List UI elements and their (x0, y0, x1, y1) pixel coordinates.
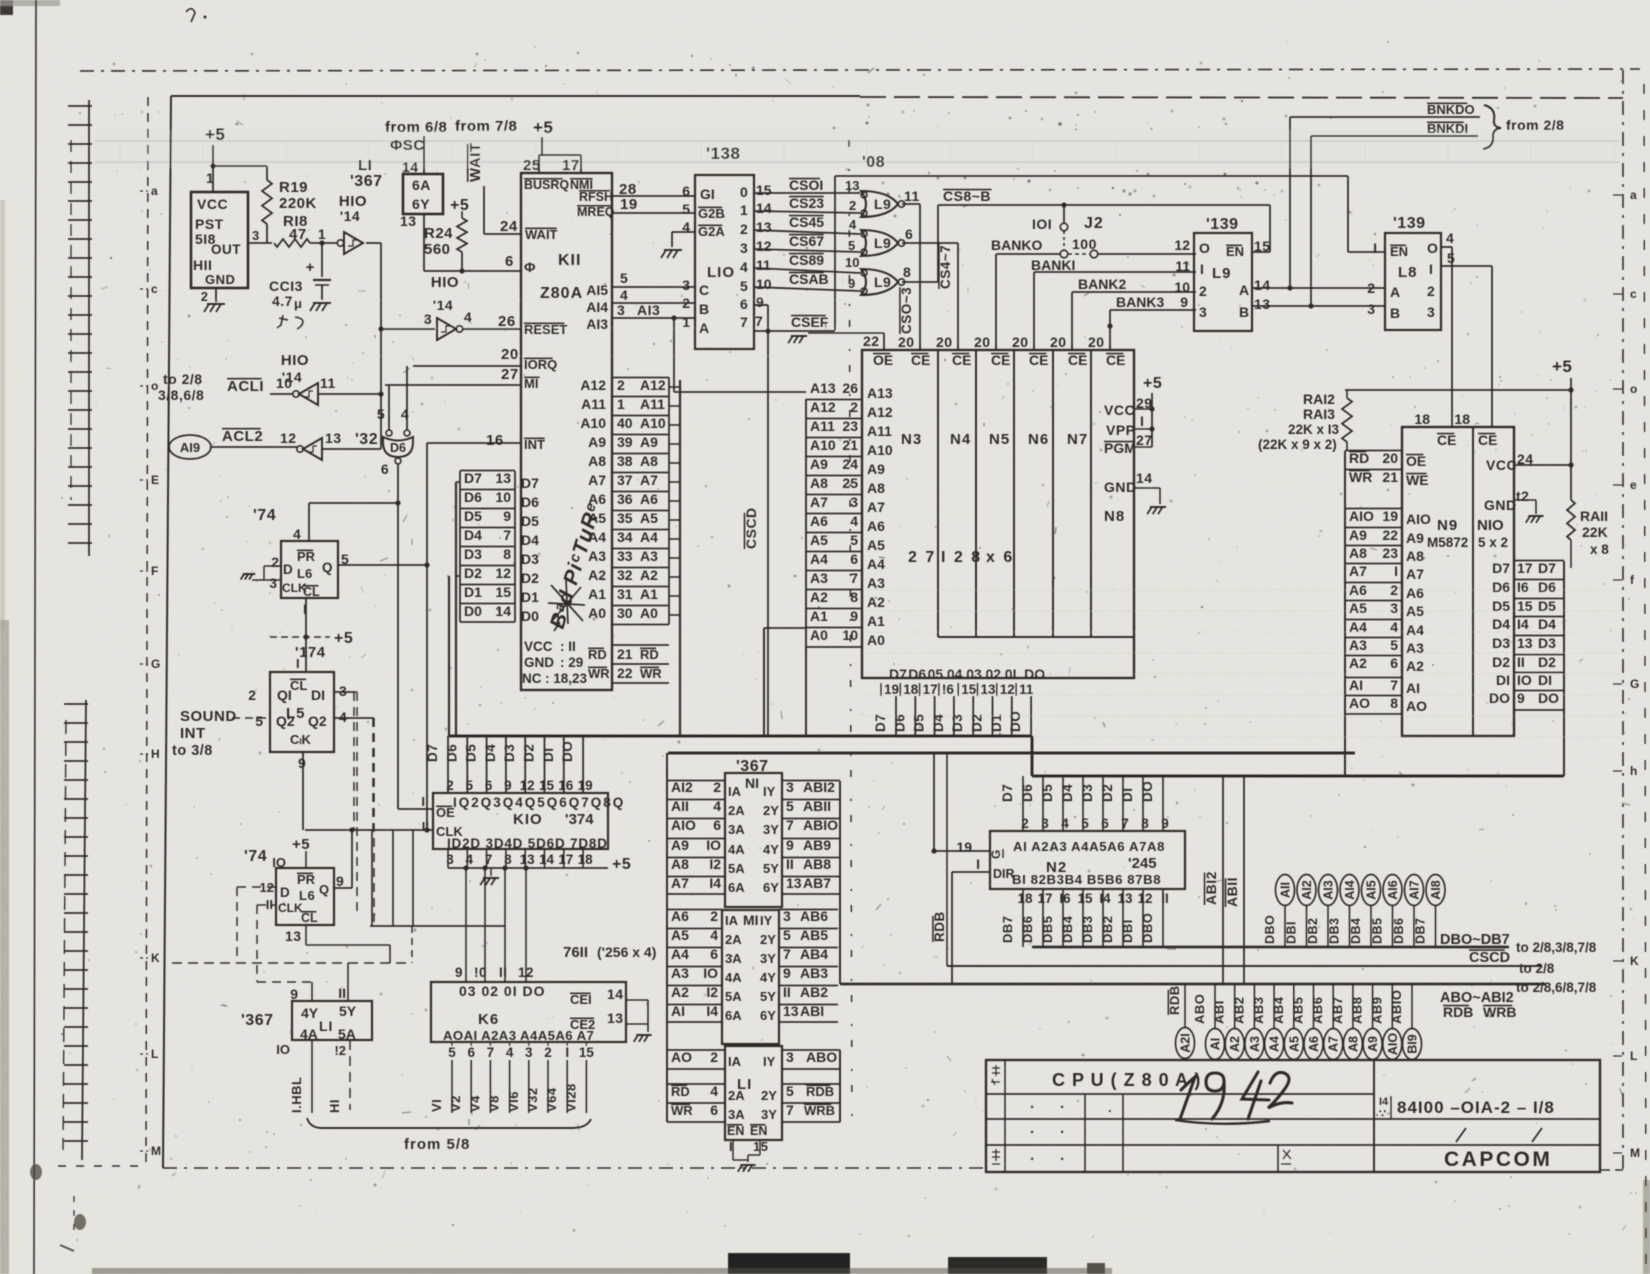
svg-text:AB6: AB6 (1310, 996, 1325, 1024)
svg-text:14: 14 (1254, 277, 1271, 293)
svg-text:PR: PR (297, 549, 316, 564)
svg-text:+5: +5 (1552, 357, 1572, 376)
svg-text:14: 14 (1136, 470, 1153, 486)
svg-text:to 2/8,3/8,7/8: to 2/8,3/8,7/8 (1516, 940, 1597, 955)
svg-text:D5: D5 (1538, 598, 1556, 614)
svg-text:GND: GND (1104, 479, 1137, 495)
CSCD bus line (947, 965, 1541, 967)
RAM divider (1472, 427, 1474, 736)
svg-text:A4: A4 (810, 551, 828, 567)
svg-text:NI: NI (745, 775, 759, 791)
vertical joining inverter outputs (380, 329, 382, 449)
svg-text:CE: CE (1106, 352, 1125, 368)
svg-text:38: 38 (617, 453, 633, 469)
right AB ladder vertical (839, 781, 841, 984)
wire inverter out down to H10b (366, 242, 381, 244)
L6 D pin2 step wire (264, 565, 281, 567)
svg-text:MI: MI (524, 376, 538, 391)
svg-text:9: 9 (848, 276, 855, 291)
svg-text:12: 12 (280, 430, 297, 446)
svg-text:3: 3 (1390, 600, 1398, 616)
svg-text:D7: D7 (1000, 784, 1015, 802)
AND gate L9a CS01+CS23 (861, 191, 898, 217)
svg-text:4: 4 (293, 526, 301, 542)
svg-text:A7: A7 (1327, 1036, 1341, 1052)
brace under V inputs (307, 1118, 591, 1128)
L6 lower Q wire up to K10 CLK (334, 887, 352, 889)
svg-text:9: 9 (455, 965, 463, 980)
handwritten katakana note (277, 315, 303, 329)
svg-text:OE: OE (873, 352, 893, 368)
inner dashed left line (146, 97, 148, 1168)
svg-text:t2: t2 (1516, 488, 1529, 504)
svg-text:220K: 220K (279, 195, 317, 212)
K10 output pins and +5 rail (447, 849, 449, 868)
svg-text:12: 12 (518, 965, 534, 980)
svg-text:19: 19 (620, 196, 638, 213)
svg-text:4: 4 (850, 513, 858, 529)
svg-text:N6: N6 (1028, 431, 1049, 448)
wire WAIT vertical to pin24 (483, 186, 485, 234)
svg-text:6A: 6A (728, 880, 745, 895)
svg-text:A7: A7 (1406, 566, 1424, 582)
svg-text:3: 3 (786, 779, 794, 795)
check slashes (1456, 1128, 1466, 1142)
svg-text:7: 7 (755, 313, 763, 329)
svg-text:'139: '139 (1206, 216, 1239, 233)
svg-text:14: 14 (756, 200, 772, 216)
svg-text:13: 13 (607, 1010, 624, 1026)
svg-text:5 x 2: 5 x 2 (1478, 535, 1508, 550)
svg-text:: II: : II (560, 639, 576, 654)
svg-text:L9: L9 (874, 235, 891, 251)
svg-text:A12: A12 (810, 399, 836, 415)
svg-text:VCC: VCC (197, 196, 228, 212)
Z80 address pin ladder A12-A0 (612, 377, 669, 379)
svg-text:WAIT: WAIT (467, 143, 484, 183)
svg-text:D0: D0 (464, 603, 482, 619)
RDB stub with oval A21 (1184, 985, 1186, 1028)
svg-text:D5: D5 (912, 714, 927, 732)
svg-text:I2: I2 (709, 856, 721, 872)
svg-text:5: 5 (620, 270, 628, 286)
svg-text:D7: D7 (464, 470, 482, 486)
svg-text:CS4~7: CS4~7 (938, 245, 953, 289)
svg-text:3: 3 (1199, 304, 1207, 320)
svg-text:4Y: 4Y (763, 842, 779, 857)
svg-text:DI: DI (1120, 788, 1135, 803)
svg-text:A9: A9 (810, 456, 828, 472)
svg-text:3: 3 (617, 302, 625, 318)
svg-text:from 7/8: from 7/8 (455, 118, 517, 135)
svg-text:8: 8 (850, 589, 858, 605)
svg-text:9: 9 (504, 778, 512, 793)
svg-text:to 2/8,6/8,7/8: to 2/8,6/8,7/8 (1516, 980, 1597, 995)
svg-text:10: 10 (842, 627, 858, 643)
svg-text:A11: A11 (810, 418, 835, 434)
svg-text:7: 7 (1390, 677, 1398, 693)
svg-text:A5: A5 (588, 510, 606, 526)
svg-text:O: O (1427, 240, 1438, 256)
svg-text:0: 0 (740, 184, 748, 200)
svg-text:2: 2 (849, 198, 856, 213)
svg-text:33: 33 (617, 548, 633, 564)
svg-text:11: 11 (904, 188, 920, 204)
svg-text:AI3: AI3 (1322, 880, 1336, 900)
svg-text:A13: A13 (867, 385, 893, 401)
svg-text:to 2/8: to 2/8 (163, 371, 203, 387)
node R18 to inverter (310, 242, 338, 244)
svg-text:AI2: AI2 (1300, 880, 1314, 900)
svg-text:20: 20 (1012, 334, 1029, 350)
svg-text:VI6: VI6 (506, 1091, 521, 1112)
svg-text:D6: D6 (1492, 579, 1510, 595)
stubs from rail down to K6 (465, 868, 467, 982)
svg-text:IO: IO (1517, 672, 1532, 688)
svg-text:II: II (266, 897, 273, 912)
resistor R18 47 (274, 239, 310, 247)
svg-text:D7: D7 (889, 666, 907, 682)
L5 D1 pin3 dashed vertical (334, 691, 357, 693)
svg-text:(22K x 9 x 2): (22K x 9 x 2) (1258, 437, 1337, 452)
svg-text:A12: A12 (640, 377, 666, 393)
svg-text:I4: I4 (1517, 616, 1529, 632)
svg-text:+5: +5 (612, 856, 631, 873)
svg-text:25: 25 (523, 157, 541, 174)
svg-text:G2A: G2A (698, 224, 725, 239)
svg-text:A6: A6 (671, 908, 689, 924)
buffer LI box (725, 1046, 782, 1140)
svg-text:9: 9 (290, 986, 298, 1002)
svg-text:L9: L9 (874, 274, 891, 290)
svg-text:1: 1 (682, 314, 690, 330)
svg-text:D6: D6 (444, 744, 459, 762)
svg-text:'32: '32 (355, 431, 378, 448)
svg-text:II: II (338, 985, 346, 1001)
svg-text:4Y: 4Y (760, 970, 776, 985)
svg-text:G: G (151, 657, 160, 671)
svg-text:AO: AO (1349, 695, 1370, 711)
svg-text:17: 17 (923, 682, 938, 697)
svg-text:D3: D3 (464, 546, 482, 562)
svg-text:AI: AI (1406, 680, 1420, 696)
svg-text:VCC: VCC (1104, 402, 1135, 418)
svg-text:WR: WR (1349, 469, 1372, 485)
svg-text:+5: +5 (1143, 375, 1162, 392)
svg-text:13: 13 (1517, 635, 1533, 651)
svg-text:10: 10 (756, 276, 772, 292)
svg-text:14: 14 (607, 986, 624, 1002)
ground H11 (207, 303, 225, 305)
svg-text:V4: V4 (467, 1095, 482, 1112)
svg-text:RESET: RESET (524, 322, 567, 337)
svg-text:V64: V64 (544, 1087, 559, 1112)
svg-text:6: 6 (905, 226, 913, 242)
svg-text:4A: 4A (725, 970, 742, 985)
svg-text:36: 36 (617, 491, 633, 507)
svg-text:A3: A3 (1248, 1036, 1262, 1052)
svg-text:'367: '367 (350, 173, 383, 190)
svg-text:3: 3 (1367, 301, 1375, 317)
L1 pin11 stub (347, 963, 349, 1001)
svg-text:5: 5 (466, 778, 474, 793)
svg-text:4: 4 (339, 709, 347, 725)
svg-text:I: I (565, 1045, 569, 1060)
svg-text:2: 2 (1021, 816, 1029, 831)
svg-text:A12: A12 (867, 404, 893, 420)
svg-text:1: 1 (206, 170, 214, 186)
svg-text:GI: GI (700, 186, 715, 202)
svg-text:4: 4 (713, 798, 721, 814)
svg-text:5: 5 (786, 1083, 794, 1099)
CS01 wire (754, 192, 860, 194)
svg-text:27: 27 (501, 366, 519, 383)
svg-text:560: 560 (424, 241, 451, 258)
svg-text:AO: AO (1406, 698, 1427, 714)
ground CC13 (313, 302, 331, 304)
svg-text:GND: GND (1484, 497, 1517, 513)
svg-text:'245: '245 (1128, 855, 1157, 872)
svg-text:V32: V32 (525, 1087, 540, 1112)
svg-text:!0: !0 (474, 965, 487, 980)
svg-text:3/8,6/8: 3/8,6/8 (158, 387, 204, 403)
svg-text:15: 15 (961, 682, 977, 697)
svg-text:μ: μ (294, 296, 302, 311)
svg-text:D3: D3 (1080, 784, 1095, 802)
svg-text:D2: D2 (522, 744, 537, 762)
svg-text:.: . (1030, 1147, 1035, 1164)
N2 top stubs to bus C (1022, 776, 1024, 831)
AB bus line (840, 983, 1545, 986)
svg-text:18: 18 (1017, 891, 1033, 906)
svg-text:MI: MI (743, 912, 759, 928)
svg-text:B: B (699, 301, 710, 317)
paper mottle overlay (0, 0, 1, 1)
svg-text:3: 3 (1427, 304, 1435, 320)
page edge shading left (0, 620, 9, 1274)
svg-text:11: 11 (1019, 682, 1034, 697)
svg-text:B: B (1390, 305, 1401, 321)
svg-text:WAIT: WAIT (525, 227, 558, 242)
svg-text:EN: EN (727, 1124, 744, 1138)
svg-text:4: 4 (401, 406, 409, 422)
svg-text:13: 13 (981, 682, 997, 697)
svg-text:DB2: DB2 (1306, 917, 1320, 944)
svg-text:DO: DO (1489, 690, 1510, 706)
svg-text:3A: 3A (728, 822, 745, 837)
svg-text:8: 8 (1390, 695, 1398, 711)
svg-text:ABI: ABI (1212, 1000, 1227, 1024)
svg-text:3: 3 (682, 277, 690, 293)
svg-text:RAI2: RAI2 (1303, 391, 1335, 407)
title block column lines (1004, 1060, 1006, 1172)
svg-text:03: 03 (966, 666, 982, 682)
svg-text:4: 4 (464, 309, 472, 325)
svg-text:DBI: DBI (1285, 921, 1299, 944)
svg-text:AII: AII (1279, 882, 1293, 898)
svg-text:ABI2: ABI2 (1203, 871, 1219, 905)
svg-text:D6: D6 (892, 714, 907, 732)
svg-text:D6: D6 (464, 489, 482, 505)
svg-text:A7: A7 (1349, 563, 1367, 579)
L1 pin9 wire from dash trunk (257, 981, 312, 983)
svg-text:: 29: : 29 (560, 655, 583, 670)
svg-text:AB4: AB4 (1271, 996, 1286, 1024)
svg-text:G: G (989, 850, 1003, 859)
capacitor CC13 4.7u (321, 243, 323, 277)
svg-text:AB3: AB3 (800, 965, 828, 981)
svg-text:.: . (1030, 1095, 1035, 1112)
svg-text:AB2: AB2 (1231, 996, 1246, 1024)
svg-text:HII: HII (193, 257, 212, 273)
ROM address ladder A13-A0 (805, 399, 807, 647)
BNKD1 riser (1310, 136, 1312, 306)
svg-text:RFSH: RFSH (579, 190, 613, 204)
svg-text:5: 5 (682, 201, 690, 217)
svg-text:13: 13 (325, 430, 342, 446)
svg-text:13: 13 (1254, 296, 1271, 312)
svg-text:26: 26 (498, 313, 516, 330)
outer dash-dot border bottom (163, 1167, 988, 1169)
svg-text:BANK3: BANK3 (1116, 294, 1164, 310)
svg-text:4: 4 (740, 259, 748, 275)
CE pin 20 stubs (919, 345, 921, 350)
svg-text:+5: +5 (533, 118, 553, 137)
svg-text:BUSRQ: BUSRQ (524, 178, 569, 192)
svg-text:CL: CL (301, 911, 318, 925)
svg-text:CE: CE (911, 352, 930, 368)
svg-text:I6: I6 (1517, 579, 1529, 595)
svg-text:20: 20 (501, 346, 519, 363)
svg-text:II: II (786, 856, 794, 872)
svg-text:4: 4 (710, 927, 718, 943)
svg-text:DB7: DB7 (1414, 917, 1428, 944)
svg-text:22K x I3: 22K x I3 (1288, 422, 1340, 437)
svg-text:A9: A9 (588, 434, 606, 450)
svg-text:2: 2 (710, 1049, 718, 1065)
svg-text:from 2/8: from 2/8 (1506, 117, 1564, 133)
svg-text:A0: A0 (867, 632, 885, 648)
svg-text:AB6: AB6 (800, 908, 828, 924)
svg-text:DB5: DB5 (1040, 915, 1055, 943)
RAM control/address ladder (1344, 451, 1346, 776)
pin3 OUT wire (248, 242, 272, 244)
svg-text:G: G (1630, 677, 1639, 691)
svg-text:AB2: AB2 (800, 984, 828, 1000)
svg-text:DO: DO (1008, 711, 1023, 732)
svg-text:RDB: RDB (1443, 1004, 1473, 1020)
svg-text:KII: KII (558, 252, 581, 269)
svg-text:47: 47 (289, 226, 307, 243)
svg-text:12: 12 (1174, 237, 1190, 253)
svg-text:GND: GND (205, 272, 235, 287)
svg-text:1: 1 (617, 396, 625, 412)
svg-text:A1: A1 (588, 586, 606, 602)
svg-text:CSEF: CSEF (791, 314, 829, 330)
main border top (171, 95, 860, 97)
svg-text:CE: CE (1068, 352, 1087, 368)
inverter H10d ACL2 (303, 438, 322, 460)
svg-text:: 18,23: : 18,23 (545, 671, 588, 686)
svg-text:2: 2 (544, 1045, 552, 1060)
svg-text:EN: EN (1390, 244, 1408, 259)
svg-text:D2: D2 (970, 714, 985, 732)
svg-text:20: 20 (936, 334, 953, 350)
svg-text:!2: !2 (334, 1043, 346, 1058)
svg-text:HI: HI (327, 1099, 342, 1113)
svg-text:QI: QI (277, 687, 292, 703)
svg-text:A12: A12 (580, 377, 606, 393)
svg-text:N8: N8 (1104, 508, 1125, 525)
svg-text:4.7: 4.7 (272, 293, 293, 309)
svg-text:6Y: 6Y (760, 1008, 776, 1023)
svg-text:DI: DI (311, 687, 325, 703)
svg-text:IO: IO (276, 1042, 290, 1057)
svg-text:D2: D2 (1538, 654, 1556, 670)
bus B to C jog (1031, 736, 1034, 776)
svg-text:13: 13 (756, 219, 772, 235)
svg-text:DO: DO (560, 741, 575, 762)
svg-text:D5: D5 (1040, 784, 1055, 802)
svg-text:20: 20 (974, 334, 991, 350)
svg-text:18: 18 (903, 682, 919, 697)
svg-text:A7: A7 (867, 499, 885, 515)
svg-text:0I: 0I (1005, 666, 1017, 682)
svg-text:D4: D4 (464, 527, 482, 543)
svg-text:e: e (1630, 478, 1637, 492)
svg-text:AIO: AIO (1406, 511, 1431, 527)
svg-text:6: 6 (467, 1045, 475, 1060)
svg-text:DI: DI (1496, 672, 1510, 688)
svg-text:+: + (306, 259, 315, 276)
svg-text:CE: CE (991, 352, 1010, 368)
outer dash-dot border top (80, 69, 1640, 71)
svg-text:A2: A2 (867, 594, 885, 610)
L8 out1 to N10 CE (1441, 265, 1492, 267)
ROM array outer box 27128 x6 (862, 350, 1134, 678)
svg-text:BANKO: BANKO (991, 237, 1042, 253)
svg-text:27: 27 (1136, 432, 1153, 448)
svg-text:AB4: AB4 (800, 946, 828, 962)
svg-text:AI: AI (1209, 1038, 1223, 1051)
svg-text:DBI: DBI (1120, 919, 1135, 943)
svg-text:I: I (976, 856, 980, 872)
svg-text:F: F (151, 564, 158, 578)
svg-text:OE: OE (436, 805, 455, 820)
svg-text:D4: D4 (931, 714, 946, 732)
svg-text:5Y: 5Y (760, 989, 776, 1004)
svg-text:N4: N4 (950, 431, 971, 448)
svg-text:+5: +5 (450, 197, 469, 214)
svg-text:AB7: AB7 (1330, 996, 1345, 1024)
svg-text:04: 04 (947, 666, 963, 682)
svg-text:'14: '14 (340, 208, 360, 224)
Z80 data pin ladder D7-D0 (459, 471, 461, 622)
svg-text:CLK: CLK (278, 901, 303, 915)
svg-text:ID2D 3D4D 5D6D 7D8D: ID2D 3D4D 5D6D 7D8D (447, 836, 608, 851)
svg-text:II: II (1161, 891, 1169, 906)
svg-text:4: 4 (1390, 619, 1398, 635)
svg-text:I2: I2 (706, 984, 718, 1000)
svg-text:A1: A1 (867, 613, 885, 629)
svg-text:AI A2A3 A4A5A6 A7A8: AI A2A3 A4A5A6 A7A8 (1013, 839, 1165, 854)
svg-text:PR: PR (297, 872, 316, 887)
svg-text:22: 22 (863, 333, 880, 349)
svg-text:3: 3 (740, 240, 748, 256)
svg-text:8: 8 (903, 264, 911, 280)
svg-text:19: 19 (578, 778, 593, 793)
L6 lower CLK dashed wire (257, 904, 276, 906)
